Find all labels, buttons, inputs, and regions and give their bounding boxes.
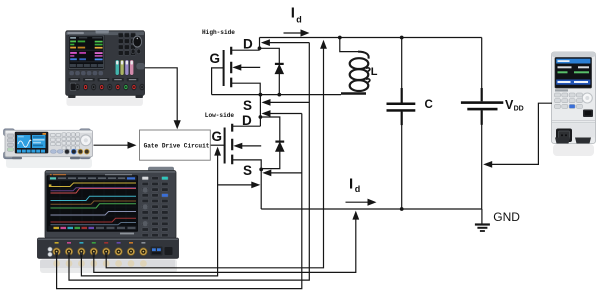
- wire high-side gate loop: [212, 68, 224, 95]
- arrowhead D sense: [261, 39, 270, 46]
- wire low-D sense line: [269, 113, 302, 115]
- svg-text:Low-side: Low-side: [205, 112, 235, 119]
- wire top Id arrow shaft: [284, 32, 303, 34]
- wire inductor top lead: [340, 38, 358, 52]
- wire high-side body contact: [241, 66, 260, 68]
- wire scope ch1 (BNC1 to low-side sense vertical): [57, 114, 302, 289]
- wire phase sense line: [269, 101, 310, 103]
- arrowhead VDD sense left: [483, 161, 492, 168]
- ground GND: [475, 209, 490, 231]
- junction dot low drain: [259, 115, 263, 119]
- DC source instrument PS2: [552, 52, 596, 156]
- wire phase to low drain: [259, 95, 261, 127]
- svg-text:GND: GND: [493, 210, 520, 224]
- wire low-side drain contact: [233, 125, 260, 127]
- junction dot capacitor top: [400, 36, 404, 40]
- wire scope ch3 (BNC3 to gate probe vertical): [81, 153, 217, 276]
- svg-text:Gate Drive Circuit: Gate Drive Circuit: [144, 142, 210, 149]
- oscilloscope OSC1: [38, 167, 179, 273]
- transistor Q1 high-side MOSFET: [224, 47, 242, 87]
- wire top rail (drain bus): [260, 37, 482, 39]
- arrowhead bottom current probe up: [352, 211, 359, 220]
- power supply instrument PSU1: [66, 30, 145, 106]
- arrowhead top current probe up: [320, 40, 327, 49]
- transistor Q2 low-side MOSFET: [225, 124, 243, 164]
- wire low-side body diode branch: [260, 117, 279, 169]
- battery VDD source: [461, 88, 503, 125]
- svg-text:D: D: [243, 37, 253, 52]
- arrowhead top Id: [301, 29, 310, 36]
- svg-text:S: S: [243, 98, 252, 113]
- svg-text:d: d: [355, 184, 361, 194]
- wire high-side drain contact: [232, 49, 260, 51]
- arrowhead gate branch right: [251, 182, 260, 189]
- diode D2 low-side body diode: [275, 142, 284, 152]
- wire PSU to gate drive: [145, 68, 178, 122]
- wire low-side body contact: [242, 145, 261, 147]
- capacitor C: [387, 88, 416, 125]
- wire fgen to gate drive: [94, 144, 129, 146]
- inductor L: [341, 52, 370, 94]
- svg-text:G: G: [212, 129, 223, 144]
- svg-text:High-side: High-side: [202, 29, 235, 36]
- arrowhead phase sense: [262, 99, 271, 106]
- wire VDD branch: [481, 38, 483, 91]
- junction dot capacitor bottom: [400, 207, 404, 211]
- svg-text:C: C: [425, 99, 433, 111]
- wire high-side body diode branch: [260, 48, 280, 94]
- svg-text:D: D: [242, 113, 252, 128]
- wire scope ch2 (BNC2 to D sense vertical): [69, 43, 309, 281]
- wire D sense line: [268, 42, 309, 44]
- wire scope ch4 (BNC4 to bottom current probe): [94, 218, 356, 273]
- wire D node vertical: [259, 38, 261, 51]
- wire low-S sense line: [269, 172, 302, 174]
- arrowhead low-S sense: [262, 170, 271, 177]
- arrowhead into gate drive box left: [128, 142, 137, 149]
- junction dot low source: [259, 168, 263, 172]
- junction dot D node: [258, 46, 262, 50]
- svg-text:G: G: [210, 51, 221, 66]
- svg-text:S: S: [243, 163, 252, 178]
- svg-text:L: L: [371, 66, 378, 78]
- diode D1 high-side body diode: [275, 64, 284, 74]
- wire capacitor branch: [401, 38, 403, 91]
- wire phase rail (switch node to L): [212, 94, 341, 96]
- wire gate probe source branch: [218, 184, 252, 186]
- svg-text:d: d: [296, 14, 302, 24]
- wire bottom Id arrow shaft: [346, 201, 370, 203]
- wire VDD source sense from PS2: [492, 103, 553, 164]
- wire bottom rail (source/ground bus): [261, 208, 482, 210]
- svg-text:I: I: [291, 5, 295, 22]
- junction dot phase-source: [259, 93, 263, 97]
- junction dot inductor top: [338, 36, 342, 40]
- arrowhead bottom Id: [368, 199, 377, 206]
- function generator FG1: [4, 129, 93, 168]
- arrowhead low-D sense: [262, 110, 271, 117]
- arrowhead gate probe up: [214, 147, 221, 156]
- wire low-side source contact: [233, 160, 261, 209]
- svg-text:I: I: [349, 175, 353, 192]
- arrowhead into gate drive box top: [174, 120, 181, 129]
- wire high-side source contact: [232, 83, 260, 94]
- junction dot phase-diode: [277, 93, 281, 97]
- gate drive circuit box: [140, 130, 211, 160]
- wire gate drive to low-side gate: [210, 144, 224, 146]
- wire scope ch5 (BNC5 to top current probe): [106, 47, 323, 268]
- svg-text:DD: DD: [514, 105, 524, 112]
